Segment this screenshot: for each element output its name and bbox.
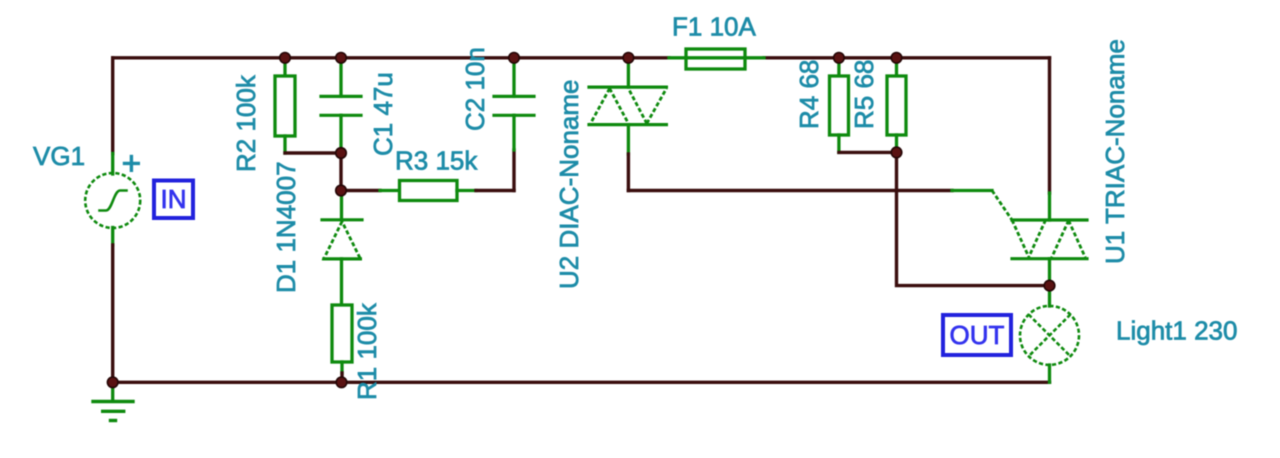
wire R4 top lead bbox=[837, 58, 840, 76]
wire R2 bottom lead bbox=[283, 136, 286, 153]
svg-text:U2 DIAC-Noname: U2 DIAC-Noname bbox=[554, 79, 584, 289]
wire triac bottom lead bbox=[1048, 259, 1051, 286]
node dot R4 top bbox=[834, 53, 845, 64]
wire gate net U2 to U1 bbox=[628, 189, 952, 192]
wire R4 bottom lead bbox=[837, 135, 840, 152]
wire D1 anode to R1 bbox=[340, 259, 343, 305]
node dot R2 top bbox=[280, 53, 291, 64]
wire triac top lead bbox=[1048, 58, 1051, 193]
wire R2 top lead bbox=[283, 58, 286, 76]
wire node A to node B bbox=[339, 153, 342, 191]
node dot ground bbox=[107, 377, 118, 388]
svg-text:R5 68: R5 68 bbox=[849, 60, 879, 129]
ground bbox=[93, 382, 133, 420]
wire VG1 top lead bbox=[111, 58, 114, 154]
svg-text:F1 10A: F1 10A bbox=[672, 12, 756, 42]
wire bottom rail bbox=[113, 381, 1050, 384]
node dot C1/D1/R3 bbox=[336, 185, 347, 196]
svg-text:C2 10n: C2 10n bbox=[460, 47, 490, 131]
node dot triac/lamp bbox=[1044, 280, 1055, 291]
wire R3 to C2 bbox=[457, 189, 476, 192]
svg-text:R2 100k: R2 100k bbox=[231, 74, 261, 172]
wire R5 bottom lead bbox=[895, 135, 898, 152]
resistor R3 bbox=[400, 181, 458, 201]
wire R5 top lead bbox=[895, 58, 898, 76]
resistor R5 bbox=[887, 76, 906, 135]
triac U1 bbox=[1012, 220, 1087, 259]
wire R4 to R5 bottom bbox=[839, 151, 897, 154]
resistor R1 bbox=[332, 305, 352, 362]
wire D1 cathode lead bbox=[340, 191, 343, 220]
wire U2 bottom lead bbox=[627, 125, 630, 154]
wire VG1 bottom lead bbox=[111, 228, 114, 246]
node dot U2 top bbox=[623, 53, 634, 64]
svg-text:U1 TRIAC-Noname: U1 TRIAC-Noname bbox=[1100, 39, 1130, 264]
wire U2 top lead bbox=[627, 58, 630, 87]
svg-text:D1 1N4007: D1 1N4007 bbox=[271, 161, 301, 293]
diode D1 bbox=[322, 220, 362, 259]
node dot C2 top bbox=[509, 53, 520, 64]
svg-text:R4 68: R4 68 bbox=[794, 60, 824, 129]
wire top rail left segment bbox=[113, 56, 669, 59]
svg-text:R3 15k: R3 15k bbox=[395, 146, 478, 176]
wire R4R5 node down to triac MT1 node bbox=[897, 152, 1050, 285]
wire lamp bottom lead bbox=[1048, 365, 1051, 382]
node dot R4/R5 bottom bbox=[891, 147, 902, 158]
fuse F1 bbox=[669, 49, 764, 69]
svg-text:OUT: OUT bbox=[950, 320, 1005, 350]
node IN box bbox=[154, 181, 193, 219]
diac U2 bbox=[589, 87, 666, 125]
voltage source VG1 bbox=[85, 173, 140, 228]
wire C1 bottom lead bbox=[339, 115, 342, 153]
capacitor C1 bbox=[321, 96, 361, 115]
wire C2 top lead bbox=[512, 58, 515, 97]
node dot R2/C1 bbox=[336, 148, 347, 159]
lamp Light1 bbox=[1020, 306, 1079, 365]
resistor R2 bbox=[275, 76, 295, 136]
svg-text:IN: IN bbox=[161, 184, 187, 214]
svg-text:C1 47u: C1 47u bbox=[368, 72, 398, 156]
node OUT box bbox=[943, 315, 1011, 355]
node dot C1 top bbox=[336, 53, 347, 64]
svg-text:R1 100k: R1 100k bbox=[352, 302, 382, 400]
plus polarity mark of VG1 bbox=[125, 157, 139, 171]
svg-text:Light1 230: Light1 230 bbox=[1116, 316, 1237, 346]
wire top rail right segment bbox=[764, 56, 1050, 59]
wire C1 top lead bbox=[339, 58, 342, 97]
resistor R4 bbox=[830, 76, 849, 135]
node dot R5 top bbox=[891, 53, 902, 64]
svg-text:VG1: VG1 bbox=[33, 141, 85, 171]
wire node B to R3 bbox=[342, 189, 381, 192]
capacitor C2 bbox=[494, 96, 534, 115]
wire R1 bottom lead bbox=[340, 362, 343, 373]
wire lamp top lead bbox=[1048, 286, 1051, 306]
wire R2 to C1 node bbox=[285, 151, 341, 154]
node dot R1 bottom bbox=[336, 377, 347, 388]
